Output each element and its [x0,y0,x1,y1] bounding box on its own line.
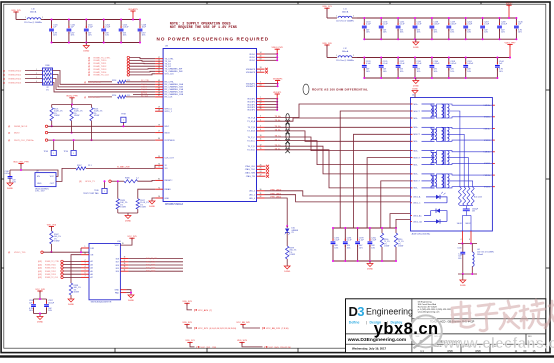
svg-text:27: 27 [260,174,262,176]
svg-text:6: 6 [260,129,261,131]
node RGMII TX label group [88,56,130,76]
svg-text:VCC_BB_1V8: VCC_BB_1V8 [266,328,281,330]
pin TX_M_A [247,119,280,123]
svg-text:120 Ohm @ 100MHz: 120 Ohm @ 100MHz [24,22,42,24]
capacitor C130 shield [457,243,477,275]
watermark ybx8 magnifier [410,315,442,348]
transformer T4 in magnetics [411,174,495,190]
resistor R317 RBIAS [136,189,155,209]
svg-text:CLK_OUT: CLK_OUT [165,158,175,160]
pin LED_2 [249,189,282,193]
svg-text:VDD_1V0: VDD_1V0 [322,43,332,45]
svg-text:GND: GND [165,198,170,200]
resistor bank secondary termination [458,187,482,206]
svg-text:MDIO: MDIO [14,132,20,134]
svg-text:VCC_1V8: VCC_1V8 [35,289,45,291]
svg-text:B18: B18 [116,258,119,260]
svg-text:4 MDI1-: 4 MDI1- [484,140,491,142]
svg-text:PHY_TX_CTL: PHY_TX_CTL [146,258,157,260]
capacitor C198 [29,299,36,314]
wire shield filter bottom [458,273,477,280]
svg-text:10%: 10% [88,35,92,37]
svg-text:[4,5]: [4,5] [38,277,42,279]
capacitor C144 [495,57,504,80]
svg-text:5: 5 [260,125,261,127]
svg-text:10%: 10% [105,35,109,37]
svg-text:JTAG_TDI: JTAG_TDI [246,175,256,178]
capacitor C129 [379,57,389,80]
svg-text:RGMII_RXD2: RGMII_RXD2 [9,78,23,80]
wire osc VCC [36,170,58,176]
svg-text:0.1uF: 0.1uF [105,27,111,29]
svg-text:23: 23 [260,100,262,102]
svg-text:25: 25 [260,168,262,170]
svg-text:32: 32 [260,196,262,198]
svg-text:1/16W: 1/16W [94,115,100,117]
capacitor C200 [368,227,377,262]
svg-text:20: 20 [122,243,124,245]
svg-text:MDI-: MDI- [414,164,419,166]
pin U16 RGMII_TXD0 [38,263,93,267]
capacitor C145 [84,19,94,44]
svg-text:10%: 10% [467,71,471,73]
svg-text:VDDA2P5: VDDA2P5 [246,85,256,88]
svg-text:SHLD2: SHLD2 [465,223,470,225]
svg-text:0.1uF: 0.1uF [383,24,389,26]
svg-text:0.01uF: 0.01uF [467,63,474,65]
svg-text:0.1uF: 0.1uF [366,24,372,26]
pin RX_CTRL [155,80,175,84]
pin CLK_OUT [155,156,175,160]
svg-text:[4,5]: [4,5] [38,268,42,270]
svg-text:0.1uF: 0.1uF [417,24,423,26]
title block size and dwg no [416,336,539,344]
ground DGND bank2 [413,39,419,49]
pin RX_CHANNEL_S0A [155,82,184,86]
svg-text:VDDA1P8: VDDA1P8 [246,71,256,74]
svg-text:RGMII_TXD1: RGMII_TXD1 [45,268,56,270]
svg-text:VDDA2P5: VDDA2P5 [128,8,138,11]
power flag VDD_1V1 [322,6,337,18]
diode LED1 in magnetics [411,192,448,205]
pin RX_CHANNEL_S2A [155,93,184,97]
capacitor C132 [67,19,76,44]
svg-text:0.1uF: 0.1uF [334,240,340,242]
svg-text:Bob smith: Bob smith [474,196,482,199]
svg-text:0.1uF: 0.1uF [359,240,365,242]
capacitor C196 [343,227,352,262]
svg-text:53: 53 [158,67,160,69]
capacitor C138 [430,17,441,40]
differential pair swap marks [285,114,290,154]
svg-text:INT/PWDN: INT/PWDN [165,140,175,142]
pin OE U16 [81,253,94,257]
svg-text:RX_CTRL: RX_CTRL [141,80,149,82]
title block frame [346,299,546,353]
svg-text:RX_CHANNEL_S0A: RX_CHANNEL_S0A [165,83,184,86]
svg-text:TX_P_D: TX_P_D [247,146,255,148]
svg-text:10%: 10% [334,247,338,249]
svg-text:10%: 10% [347,247,351,249]
pin RESET# [155,179,173,183]
svg-text:1:1: 1:1 [420,349,424,353]
svg-text:10%: 10% [142,35,146,37]
capacitor C134 [379,17,389,40]
svg-text:RX_CLK: RX_CLK [165,97,173,99]
ground DGND below R328 [125,216,131,223]
capacitor C208 [446,57,457,80]
svg-text:79: 79 [158,124,160,126]
svg-text:RGMII_TXD4: RGMII_TXD4 [94,72,108,74]
pin U16 PHY_TX_CTL [116,257,183,261]
svg-text:560mA: 560mA [342,50,349,53]
svg-text:10%: 10% [371,247,375,249]
svg-text:0.01uF: 0.01uF [450,24,457,26]
capacitor C197 [44,299,55,314]
pin VDD1P1 [247,100,264,104]
capacitor C1000 2kV in magnetics [463,206,479,215]
svg-text:1/16W: 1/16W [74,115,80,117]
resistor R300 termination [380,227,390,262]
svg-text:2: 2 [353,15,354,17]
title block bottom row [416,345,536,353]
svg-text:2 MDI0-: 2 MDI0- [484,117,491,119]
op-amp U9 main PHY IC body [163,45,256,206]
svg-text:51: 51 [158,72,160,74]
svg-text:LED1_A: LED1_A [413,196,421,199]
svg-text:41: 41 [158,85,160,87]
svg-text:0.1uF: 0.1uF [383,63,389,65]
svg-text:1/16W: 1/16W [398,246,403,248]
svg-text:MDI-: MDI- [414,141,419,143]
svg-text:DGND: DGND [7,188,13,190]
svg-text:A6: A6 [91,273,93,276]
power flag VDD_3V3 at R347 [47,224,57,231]
svg-text:A3: A3 [91,263,93,266]
svg-text:B14: B14 [116,271,119,273]
svg-text:[4,5]: [4,5] [38,261,42,263]
svg-text:XO: XO [165,168,168,170]
svg-text:A7: A7 [91,276,93,279]
wire RX_DV row [133,93,155,95]
svg-text:30: 30 [260,189,262,191]
svg-text:R307: R307 [77,165,82,167]
svg-text:8 MDI3-: 8 MDI3- [484,187,491,189]
svg-text:120 Ohm @ 100MHz: 120 Ohm @ 100MHz [336,21,354,23]
svg-text:RGMII_TX_CTRL: RGMII_TX_CTRL [45,261,59,263]
svg-text:RGMII_TXD0: RGMII_TXD0 [45,264,56,266]
svg-text:10%: 10% [518,32,522,34]
svg-text:R293: R293 [112,80,116,82]
svg-text:DRWN BY: DRWN BY [434,346,443,348]
capacitor C207 [480,17,490,40]
title block title cell [417,316,475,324]
svg-text:13: 13 [260,67,262,69]
pin DIR U16 [80,246,95,253]
pin TX_D0 [155,59,172,63]
svg-text:ROUTE AS 100 OHM DIFFERENTIAL: ROUTE AS 100 OHM DIFFERENTIAL [312,88,368,92]
border zone ticks bottom [115,348,481,352]
power tie VCC_3V3 [182,322,236,330]
svg-text:PHY RX CTRL: PHY RX CTRL [88,82,100,84]
svg-text:10%: 10% [53,35,57,37]
svg-text:1 MDI0+: 1 MDI0+ [484,105,491,107]
svg-text:TEST POINT PAD: TEST POINT PAD [83,192,99,195]
svg-text:0.01uF: 0.01uF [123,27,130,29]
svg-text:MDICT: MDICT [414,157,421,159]
svg-text:0.01uF: 0.01uF [434,24,441,26]
svg-text:TP48: TP48 [121,114,126,116]
capacitor C202 [119,19,130,44]
svg-text:57: 57 [158,57,160,59]
svg-text:84: 84 [158,138,160,140]
pin TX_D2 [155,64,172,68]
svg-text:MDI-: MDI- [414,188,419,190]
power flag VDD1P1 at U9 [265,92,283,111]
svg-text:(: ( [194,308,195,312]
wire pullup bus [52,104,92,106]
svg-text:TX_M_A: TX_M_A [247,120,255,123]
pin LED_1 [249,193,282,197]
svg-text:XI_MAC_25M: XI_MAC_25M [117,165,130,168]
capacitor C141 [413,57,423,80]
power flag VDDQ_PHY at U9 [265,47,284,61]
svg-text:10%: 10% [450,71,454,73]
svg-text:MDI+: MDI+ [414,174,420,176]
capacitor C148 [138,19,147,44]
power flag VCC_1V8 at C198 [35,289,45,299]
inductor L11 [336,9,357,23]
wire bus bank2 bottom [364,38,516,40]
svg-text:560mA: 560mA [30,11,37,14]
svg-text:PHY_TXD1: PHY_TXD1 [146,265,155,267]
svg-text:DGND: DGND [284,271,290,273]
power flag VCC_2V5 at U16 [115,236,138,247]
svg-text:GND: GND [114,290,119,292]
svg-text:17: 17 [158,131,160,133]
power tie VCC_1V1 [185,340,216,349]
svg-text:43: 43 [158,80,160,82]
wire C198 bus [34,298,47,314]
svg-text:DGND: DGND [83,50,89,52]
svg-text:VDD_1V1: VDD_1V1 [322,6,332,8]
svg-text:NO POWER SEQUENCING REQUIRED: NO POWER SEQUENCING REQUIRED [157,36,270,41]
ground DGND at C198 [37,313,43,324]
svg-text:DGND: DGND [413,85,419,87]
svg-text:9: 9 [159,166,160,168]
diode LED2 in magnetics [411,209,448,224]
svg-text:1: 1 [104,191,105,193]
pin JTAG_TMS [245,171,269,175]
pin U16 RGMII_TX_CLK [38,276,93,280]
svg-text:82: 82 [158,179,160,181]
resistor R301 termination [394,227,404,262]
svg-text:10%: 10% [458,258,462,260]
svg-text:64: 64 [260,84,262,86]
svg-text:MDI-: MDI- [414,118,419,120]
svg-text:MDIO: MDIO [165,132,171,134]
svg-text:VDDA1P8: VDDA1P8 [246,68,256,71]
svg-text:VCC_AVS: VCC_AVS [198,309,209,312]
svg-text:1/16W: 1/16W [384,246,389,248]
svg-text:2.2: 2.2 [136,178,139,180]
svg-text:18: 18 [124,257,126,259]
svg-text:DGND: DGND [413,47,419,49]
wire magnetics LED returns [390,214,411,228]
svg-text:RGMII_RXD0: RGMII_RXD0 [9,70,23,72]
svg-text:(: ( [197,345,198,349]
svg-text:28: 28 [158,109,160,111]
power tie VCC_AVS [182,301,212,312]
svg-text:10%: 10% [366,71,370,73]
svg-text:TX_CHANNEL_INP: TX_CHANNEL_INP [165,68,183,71]
wire LED1 LED2 to magnetics [265,191,411,202]
svg-text:0.1uF: 0.1uF [371,240,377,242]
pin U16 PHY_TXD1 [116,263,183,267]
border zone ticks left [1,90,4,268]
pin RX_CLK [155,95,173,99]
svg-text:0.1uF: 0.1uF [88,27,94,29]
resistor R299 LED series [286,246,297,266]
pin TX_D1 [155,62,172,66]
svg-text:4: 4 [461,239,462,241]
pin VDD1P1 [247,105,264,109]
svg-text:95: 95 [158,156,160,158]
svg-text:10%: 10% [359,247,363,249]
svg-text:TP50: TP50 [63,151,68,153]
svg-text:TX_P_C: TX_P_C [247,137,255,139]
pin TX_P_A [248,115,282,119]
svg-text:VDD_SVS: VDD_SVS [237,340,247,342]
pin TX_P_B [248,125,282,129]
pin VDDA1P8 [246,70,265,74]
svg-text:10%: 10% [417,32,421,34]
svg-text:[4,5]: [4,5] [38,264,42,266]
capacitor C128 [362,57,372,80]
svg-text:LED2_AC: LED2_AC [413,214,422,217]
svg-text:(7,8,16): (7,8,16) [282,328,289,330]
pin TX_M_B [247,129,280,133]
svg-text:10%: 10% [434,71,438,73]
svg-text:(: ( [262,326,263,330]
svg-text:8: 8 [469,239,470,241]
pin U16 RGMII_TX_CTRL [38,260,93,264]
svg-text:VCC: VCC [115,245,120,247]
test point TP40 [83,180,107,195]
svg-text:3 MDI1+: 3 MDI1+ [484,128,491,130]
svg-text:7 MDI3+: 7 MDI3+ [484,175,491,177]
inductor L12 [336,48,357,62]
border zone ticks top [115,2,481,4]
svg-text:VDDA2P5: VDDA2P5 [273,77,283,80]
test point TP49 [43,139,56,155]
ground DGND termination [367,261,373,270]
svg-text:10%: 10% [467,32,471,34]
svg-text:MDI+: MDI+ [414,150,420,152]
power flag VDDIO bank2 [506,3,513,19]
wire bus termination bottom [333,260,396,262]
resistor R123 pull-up [90,105,103,121]
svg-text:VDD1P1: VDD1P1 [247,102,256,104]
svg-text:74: 74 [158,163,160,165]
svg-text:R294: R294 [112,95,116,97]
capacitor C146 [514,17,523,40]
wire bus bank3 bottom [364,77,497,79]
svg-text:VDDQ_PHY: VDDQ_PHY [66,96,78,98]
svg-text:10%: 10% [400,32,404,34]
resistor R122 pull-up [70,105,83,121]
svg-text:Wednesday, July 19, 2017: Wednesday, July 19, 2017 [352,346,387,350]
svg-text:40: 40 [260,55,262,57]
svg-text:10: 10 [260,135,262,137]
svg-text:VDD1P1: VDD1P1 [247,107,256,109]
transformer T3 in magnetics [411,150,495,187]
wire pull-up drops to MDIO rows [51,121,93,141]
pin JTAG_TDO [245,168,269,172]
svg-text:10%: 10% [123,35,127,37]
inductor L10 [16,9,44,25]
svg-text:LED_2: LED_2 [249,191,256,193]
svg-text:VCC_1V1: VCC_1V1 [201,347,212,349]
wire bus bank1 bottom [52,42,141,44]
svg-text:RGMII_TXD3: RGMII_TXD3 [94,69,108,71]
pin GPIO_1 [155,109,173,113]
svg-text:37: 37 [158,95,160,97]
pin GPIO_0 [155,107,173,111]
svg-text:0.1uF: 0.1uF [484,24,490,26]
svg-text:VDD1P1: VDD1P1 [247,110,256,112]
pin TX_M_C [247,139,281,143]
svg-text:PHY_TXD2: PHY_TXD2 [146,268,155,270]
svg-text:2: 2 [260,82,261,84]
svg-text:0.1uF: 0.1uF [467,24,473,26]
wire PHY_RX_CTRL with resistor R293 [84,80,155,84]
svg-text:DGND: DGND [367,268,373,270]
svg-text:1: 1 [53,153,54,155]
svg-text:1/16W: 1/16W [54,115,60,117]
pin VDDA1P8 [246,67,265,71]
svg-text:62: 62 [260,105,262,107]
svg-text:40: 40 [158,88,160,90]
capacitor C201 [463,57,474,80]
svg-text:10%: 10% [417,71,421,73]
wire center tap drops [340,111,410,228]
svg-text:52: 52 [158,69,160,71]
svg-text:TP49: TP49 [43,151,48,153]
svg-text:GND: GND [37,183,42,185]
svg-text:VDDL_PHY: VDDL_PHY [505,42,517,44]
svg-text:12: 12 [260,144,262,146]
resistor R328 pulldown [116,180,128,209]
svg-text:VDDQ_PHY: VDDQ_PHY [271,47,283,49]
svg-text:A2: A2 [91,260,93,263]
svg-text:DGND: DGND [37,321,43,323]
svg-text:GPIO0_TX: GPIO0_TX [85,181,95,183]
pin RX_CHANNEL_S1A [155,88,184,92]
svg-text:16: 16 [124,263,126,265]
svg-text:VCC_SVS: VCC_SVS [269,347,280,349]
svg-text:B15: B15 [116,268,119,270]
svg-text:0.1uF: 0.1uF [347,240,353,242]
svg-text:2: 2 [353,55,354,57]
svg-text:GTX_CLK: GTX_CLK [165,74,175,76]
svg-text:RGMII_TXD2: RGMII_TXD2 [94,66,108,68]
node VDDIO_TXD row [8,251,89,254]
svg-text:96: 96 [158,196,160,198]
svg-text:VDD_3V3: VDD_3V3 [47,224,57,226]
svg-text:0.1uF: 0.1uF [366,63,372,65]
wire bus bank2 top [357,17,516,19]
